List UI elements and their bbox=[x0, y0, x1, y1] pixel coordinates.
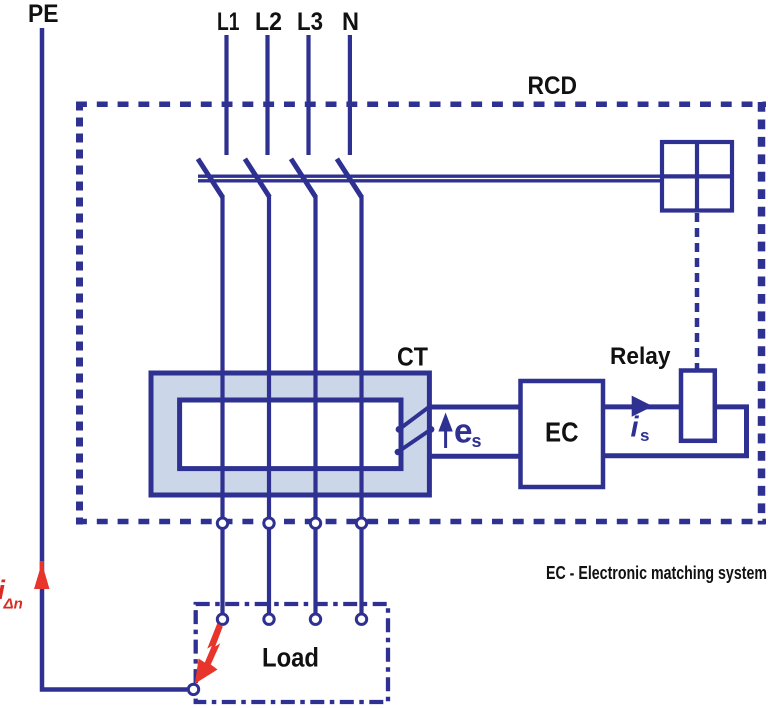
wire L3 to load bbox=[313, 529, 317, 614]
terminal circle L3 on RCD border bbox=[310, 518, 320, 528]
earth fault lightning arrow bbox=[195, 623, 223, 684]
dashed link mechanism to relay bbox=[695, 213, 700, 369]
load terminal circle L2 bbox=[264, 614, 274, 624]
svg-text:PE: PE bbox=[28, 0, 59, 28]
CT secondary terminal dot 3 bbox=[428, 426, 435, 433]
wire CT to EC top bbox=[427, 405, 521, 410]
relay coil box bbox=[681, 371, 715, 441]
trip bar upper line bbox=[198, 174, 664, 177]
wire L3 feed bbox=[306, 35, 310, 155]
arrow e_s head bbox=[438, 413, 452, 432]
wire N through CT bbox=[359, 195, 363, 518]
wire bottom return to EC bbox=[603, 453, 749, 458]
wire L2 through CT bbox=[267, 195, 271, 518]
CT secondary winding turn 1 bbox=[399, 406, 431, 430]
wire N feed bbox=[348, 35, 352, 155]
trip bar lower line bbox=[198, 179, 664, 182]
load terminal circle N bbox=[356, 614, 366, 624]
wire L1 to load bbox=[220, 529, 224, 614]
switch blade pole L1 bbox=[198, 159, 223, 197]
CT secondary terminal dot 2 bbox=[395, 449, 401, 455]
PE terminal circle at fault point bbox=[188, 684, 198, 694]
svg-text:i: i bbox=[631, 412, 640, 444]
CT secondary winding turn 2 bbox=[398, 429, 431, 452]
RCD enclosure dashed border bottom bbox=[76, 519, 766, 525]
switch blade pole L2 bbox=[245, 159, 270, 197]
tripping mechanism box horizontal divider bbox=[662, 174, 732, 178]
wire L1 through CT bbox=[220, 195, 224, 518]
wire L1 feed bbox=[224, 35, 228, 155]
RCD enclosure dashed border top bbox=[76, 101, 766, 107]
svg-text:Relay: Relay bbox=[610, 343, 671, 370]
RCD enclosure dashed border right bbox=[758, 102, 766, 525]
svg-text:L1: L1 bbox=[217, 8, 240, 36]
terminal circle L1 on RCD border bbox=[217, 518, 227, 528]
wire CT to EC bottom bbox=[427, 454, 521, 459]
svg-text:EC: EC bbox=[545, 417, 579, 448]
load terminal circle L1 bbox=[217, 614, 227, 624]
wire L2 to load bbox=[267, 529, 271, 614]
CT toroid window (inner) bbox=[180, 400, 401, 469]
svg-text:Δn: Δn bbox=[3, 596, 23, 613]
load enclosure dash-dot border bbox=[196, 604, 388, 702]
svg-text:s: s bbox=[640, 426, 649, 445]
CT toroid core (outer) bbox=[151, 373, 429, 495]
switch blade pole N bbox=[337, 159, 362, 197]
svg-text:L3: L3 bbox=[297, 8, 323, 36]
CT secondary terminal dot 1 bbox=[396, 426, 403, 433]
wire relay to right bbox=[715, 404, 749, 409]
terminal circle L2 on RCD border bbox=[264, 518, 274, 528]
svg-text:s: s bbox=[472, 431, 482, 451]
terminal circle N on RCD border bbox=[356, 518, 366, 528]
arrow fault current up on PE wire bbox=[34, 561, 50, 589]
wire N to load bbox=[359, 529, 363, 614]
wire L3 through CT bbox=[313, 195, 317, 518]
tripping mechanism box vertical divider bbox=[695, 142, 699, 211]
svg-text:RCD: RCD bbox=[528, 72, 578, 100]
RCD enclosure dashed border left bbox=[76, 102, 83, 525]
wire L2 feed bbox=[265, 35, 269, 155]
svg-text:EC - Electronic matching syste: EC - Electronic matching system bbox=[546, 562, 767, 583]
arrow i_s head bbox=[632, 396, 653, 417]
svg-text:CT: CT bbox=[397, 342, 428, 372]
wire EC to relay bbox=[603, 404, 681, 409]
tripping mechanism box bbox=[662, 142, 732, 211]
svg-text:N: N bbox=[342, 8, 359, 36]
svg-text:Load: Load bbox=[262, 643, 319, 673]
switch blade pole L3 bbox=[291, 159, 316, 197]
wire PE vertical bbox=[42, 28, 187, 690]
load terminal circle L3 bbox=[310, 614, 320, 624]
EC box bbox=[521, 381, 604, 487]
wire right vertical return bbox=[744, 405, 749, 459]
svg-text:L2: L2 bbox=[255, 8, 282, 36]
arrow e_s shaft bbox=[444, 429, 447, 448]
svg-text:e: e bbox=[454, 413, 473, 451]
